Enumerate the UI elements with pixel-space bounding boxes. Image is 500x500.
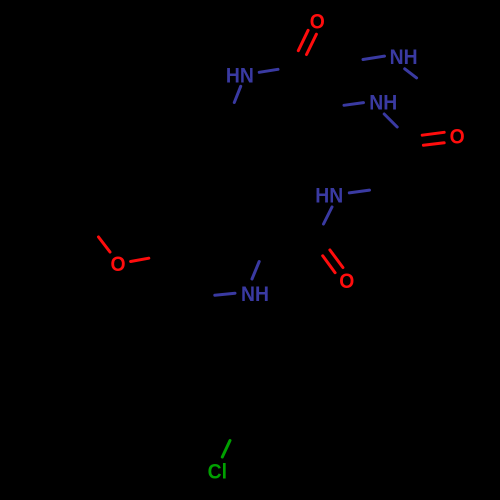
bond N6-C (up-right) [252,262,259,280]
bond N6-C (to the left) [215,293,235,295]
svg-text:O: O [110,252,125,276]
double bond C2=O2 line b [423,143,444,146]
svg-text:O: O [339,269,354,293]
svg-text:O: O [310,9,325,33]
bond Cl-C (up-right) [222,441,230,458]
double bond C3=O3 line b [330,250,343,268]
bond N4-C2 (down-right) [384,114,397,127]
svg-text:HN: HN [315,183,343,207]
svg-text:HN: HN [226,64,254,88]
bond N2-C1 (to the right) [259,69,278,72]
bond O4-C (up-left) [99,237,111,252]
svg-text:NH: NH [369,91,397,115]
bond N5-C (to the right) [349,190,369,193]
svg-text:NH: NH [390,45,418,69]
bond N3-C (down-right) [405,69,417,78]
bond N5-C3 (down-left) [324,207,333,224]
double bond C1=O1 line b [307,34,317,54]
double bond C3=O3 line a [323,256,335,273]
double bond C1=O1 line a [298,30,308,50]
double bond C2=O2 line a [422,132,444,135]
bond N2-C (down-left) [234,86,240,102]
bond N3-C (to the left) [363,56,385,59]
bond O4-C (to the right) [131,258,149,261]
svg-text:O: O [450,124,465,148]
svg-text:Cl: Cl [208,460,227,484]
svg-text:NH: NH [241,282,269,306]
bond N4-C (to the left) [344,103,364,106]
